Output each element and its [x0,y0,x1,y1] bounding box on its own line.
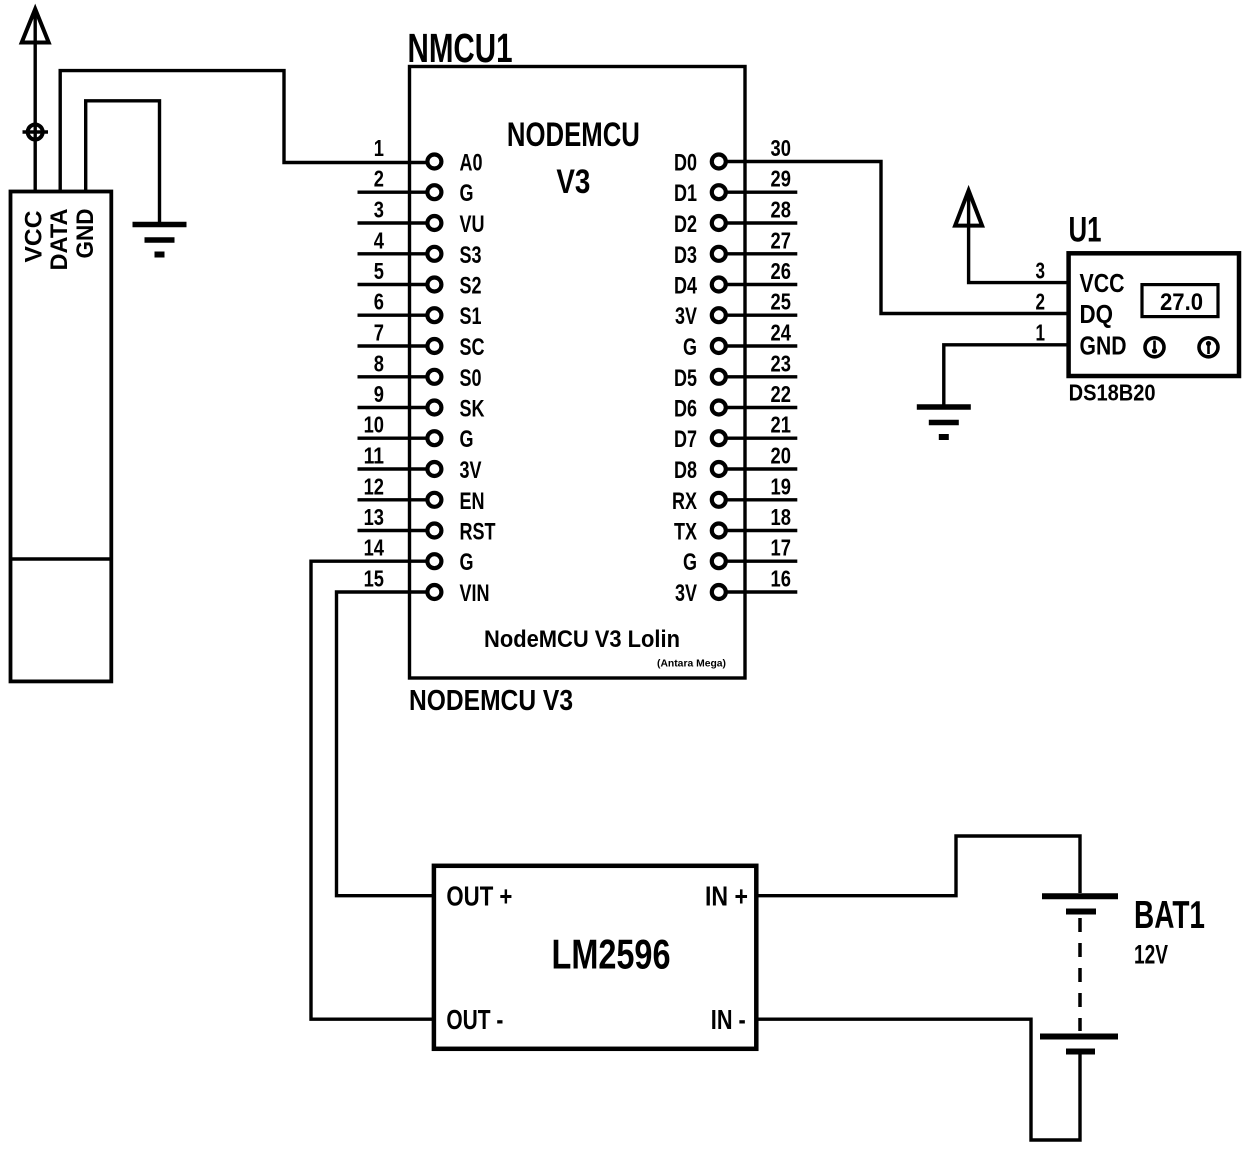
svg-text:IN +: IN + [705,881,748,912]
svg-text:VIN: VIN [460,580,490,607]
svg-text:29: 29 [771,166,791,192]
svg-text:21: 21 [771,412,791,438]
NodeMCU pin 28 (D2) [726,221,797,224]
svg-text:1: 1 [374,135,384,161]
svg-text:SK: SK [460,396,485,423]
junction marker on VCC wire [23,130,49,133]
temperature sensor U1 box [1069,253,1239,376]
NodeMCU pin 1 (A0) [427,155,441,169]
svg-text:20: 20 [771,443,791,469]
wire: sensor GND to ground symbol [86,101,160,223]
svg-text:U1: U1 [1069,211,1102,250]
svg-text:G: G [460,549,474,576]
svg-text:DATA: DATA [46,209,73,271]
NodeMCU pin 9 (SK) [358,406,428,409]
NodeMCU pin 7 (SC) [358,344,428,347]
svg-text:D3: D3 [674,242,697,269]
svg-text:TX: TX [674,519,697,546]
svg-text:19: 19 [771,473,791,499]
svg-text:G: G [683,549,697,576]
svg-text:NODEMCU: NODEMCU [507,116,640,154]
svg-text:RST: RST [460,519,496,546]
svg-text:6: 6 [374,289,384,315]
svg-text:12V: 12V [1134,940,1168,970]
NodeMCU module NMCU1 box [410,67,746,679]
svg-text:GND: GND [1080,331,1127,361]
wire: pin 15 VIN to LM2596 OUT+ / pin 15 (VIN) [337,592,434,896]
svg-text:7: 7 [374,320,384,346]
svg-text:24: 24 [771,320,791,346]
NodeMCU pin 18 (TX) [726,529,797,532]
svg-text:VCC: VCC [1080,268,1125,298]
svg-text:DS18B20: DS18B20 [1069,380,1156,406]
wire: U1 GND pin 1 to ground [944,345,1069,405]
svg-text:28: 28 [771,197,791,223]
NodeMCU pin 19 (RX) [726,498,797,501]
power symbol VCC arrow (top left) [22,9,49,43]
svg-text:NodeMCU V3 Lolin: NodeMCU V3 Lolin [484,626,680,653]
NodeMCU pin 27 (D3) [726,252,797,255]
battery BAT1 cell 1 short plate [1066,909,1096,915]
wire: pin 30 D0 to U1 DQ / pin 30 (D0) [726,162,1069,314]
svg-text:3: 3 [374,197,384,223]
svg-text:S0: S0 [460,365,482,392]
svg-text:OUT +: OUT + [446,881,512,912]
ground symbol (top left) [133,222,187,228]
svg-text:G: G [460,180,474,207]
battery BAT1 cell 2 long plate [1040,1034,1118,1040]
svg-text:12: 12 [364,473,384,499]
NodeMCU pin 2 (G) [358,190,428,193]
svg-text:BAT1: BAT1 [1134,894,1205,937]
wire: pin 14 G to LM2596 OUT- / pin 14 (G) [311,561,434,1019]
svg-text:S1: S1 [460,303,482,330]
svg-text:D2: D2 [674,211,697,238]
svg-text:D1: D1 [674,180,697,207]
svg-text:(Antara Mega): (Antara Mega) [657,658,726,670]
svg-text:11: 11 [364,443,384,469]
power symbol VCC arrow (right) [955,191,982,226]
wire: LM2596 IN+ to BAT1 positive [756,836,1080,896]
U1 button up [1199,338,1218,357]
svg-text:16: 16 [771,566,791,592]
NodeMCU pin 4 (S3) [358,252,428,255]
NodeMCU pin 16 (3V) [726,590,797,593]
U1 button down [1145,338,1164,357]
wire: LM2596 IN- to BAT1 negative [756,1019,1080,1140]
svg-text:IN -: IN - [711,1004,746,1035]
svg-text:VCC: VCC [21,211,48,263]
svg-text:D6: D6 [674,396,697,423]
NodeMCU pin 26 (D4) [726,283,797,286]
svg-text:22: 22 [771,381,791,407]
svg-text:G: G [460,426,474,453]
svg-text:18: 18 [771,504,791,530]
battery BAT1 cell 2 short plate [1066,1049,1095,1055]
svg-text:30: 30 [771,135,791,161]
battery BAT1 cell 1 long plate [1042,893,1118,899]
NodeMCU pin 29 (D1) [726,190,797,193]
svg-text:OUT -: OUT - [446,1004,503,1035]
svg-text:LM2596: LM2596 [552,931,671,978]
svg-text:EN: EN [460,488,485,515]
svg-text:5: 5 [374,258,384,284]
svg-text:1: 1 [1036,320,1046,346]
ground symbol (right) [917,404,971,410]
svg-text:3: 3 [1036,258,1046,284]
svg-text:15: 15 [364,566,384,592]
svg-text:3V: 3V [675,580,697,607]
NodeMCU pin 23 (D5) [726,375,797,378]
svg-text:26: 26 [771,258,791,284]
NodeMCU pin 25 (3V) [726,314,797,317]
svg-text:4: 4 [374,227,384,253]
svg-text:27: 27 [771,227,791,253]
svg-text:V3: V3 [556,163,590,201]
svg-text:23: 23 [771,350,791,376]
NodeMCU pin 21 (D7) [726,437,797,440]
svg-text:14: 14 [364,535,384,561]
NodeMCU pin 12 (EN) [358,498,428,501]
svg-text:25: 25 [771,289,791,315]
svg-text:2: 2 [1036,289,1046,315]
svg-text:D7: D7 [674,426,697,453]
svg-text:3V: 3V [460,457,482,484]
svg-text:G: G [683,334,697,361]
U1 temperature display box [1142,285,1218,317]
svg-text:3V: 3V [675,303,697,330]
svg-text:D4: D4 [674,273,697,300]
NodeMCU pin 13 (RST) [358,529,428,532]
svg-text:D0: D0 [674,150,697,177]
NodeMCU pin 22 (D6) [726,406,797,409]
svg-text:A0: A0 [460,150,483,177]
svg-text:9: 9 [374,381,384,407]
wire: sensor VCC pin up to power arrow [34,12,37,192]
NodeMCU pin 3 (VU) [358,221,428,224]
wire: sensor DATA to NodeMCU pin A0 [60,71,427,192]
svg-text:17: 17 [771,535,791,561]
wire: power arrow to U1 VCC pin 3 [969,194,1069,283]
svg-text:NMCU1: NMCU1 [408,25,513,71]
svg-text:DQ: DQ [1080,299,1114,329]
svg-text:VU: VU [460,211,485,238]
NodeMCU pin 17 (G) [726,560,797,563]
battery dashed link [1078,918,1082,1031]
svg-text:S3: S3 [460,242,482,269]
svg-text:10: 10 [364,412,384,438]
svg-text:2: 2 [374,166,384,192]
NodeMCU pin 11 (3V) [358,467,428,470]
NodeMCU pin 8 (S0) [358,375,428,378]
svg-text:8: 8 [374,350,384,376]
svg-text:SC: SC [460,334,485,361]
svg-text:D5: D5 [674,365,697,392]
LM2596 regulator box [434,866,756,1049]
svg-text:RX: RX [672,488,697,515]
svg-text:NODEMCU V3: NODEMCU V3 [409,685,573,717]
svg-text:D8: D8 [674,457,697,484]
svg-text:S2: S2 [460,273,482,300]
svg-text:27.0: 27.0 [1160,289,1203,316]
NodeMCU pin 6 (S1) [358,314,428,317]
sensor probe box [11,192,112,682]
svg-text:GND: GND [72,209,99,259]
svg-text:13: 13 [364,504,384,530]
NodeMCU pin 10 (G) [358,437,428,440]
NodeMCU pin 5 (S2) [358,283,428,286]
NodeMCU pin 20 (D8) [726,467,797,470]
NodeMCU pin 24 (G) [726,344,797,347]
sensor internal divider line [11,557,112,560]
